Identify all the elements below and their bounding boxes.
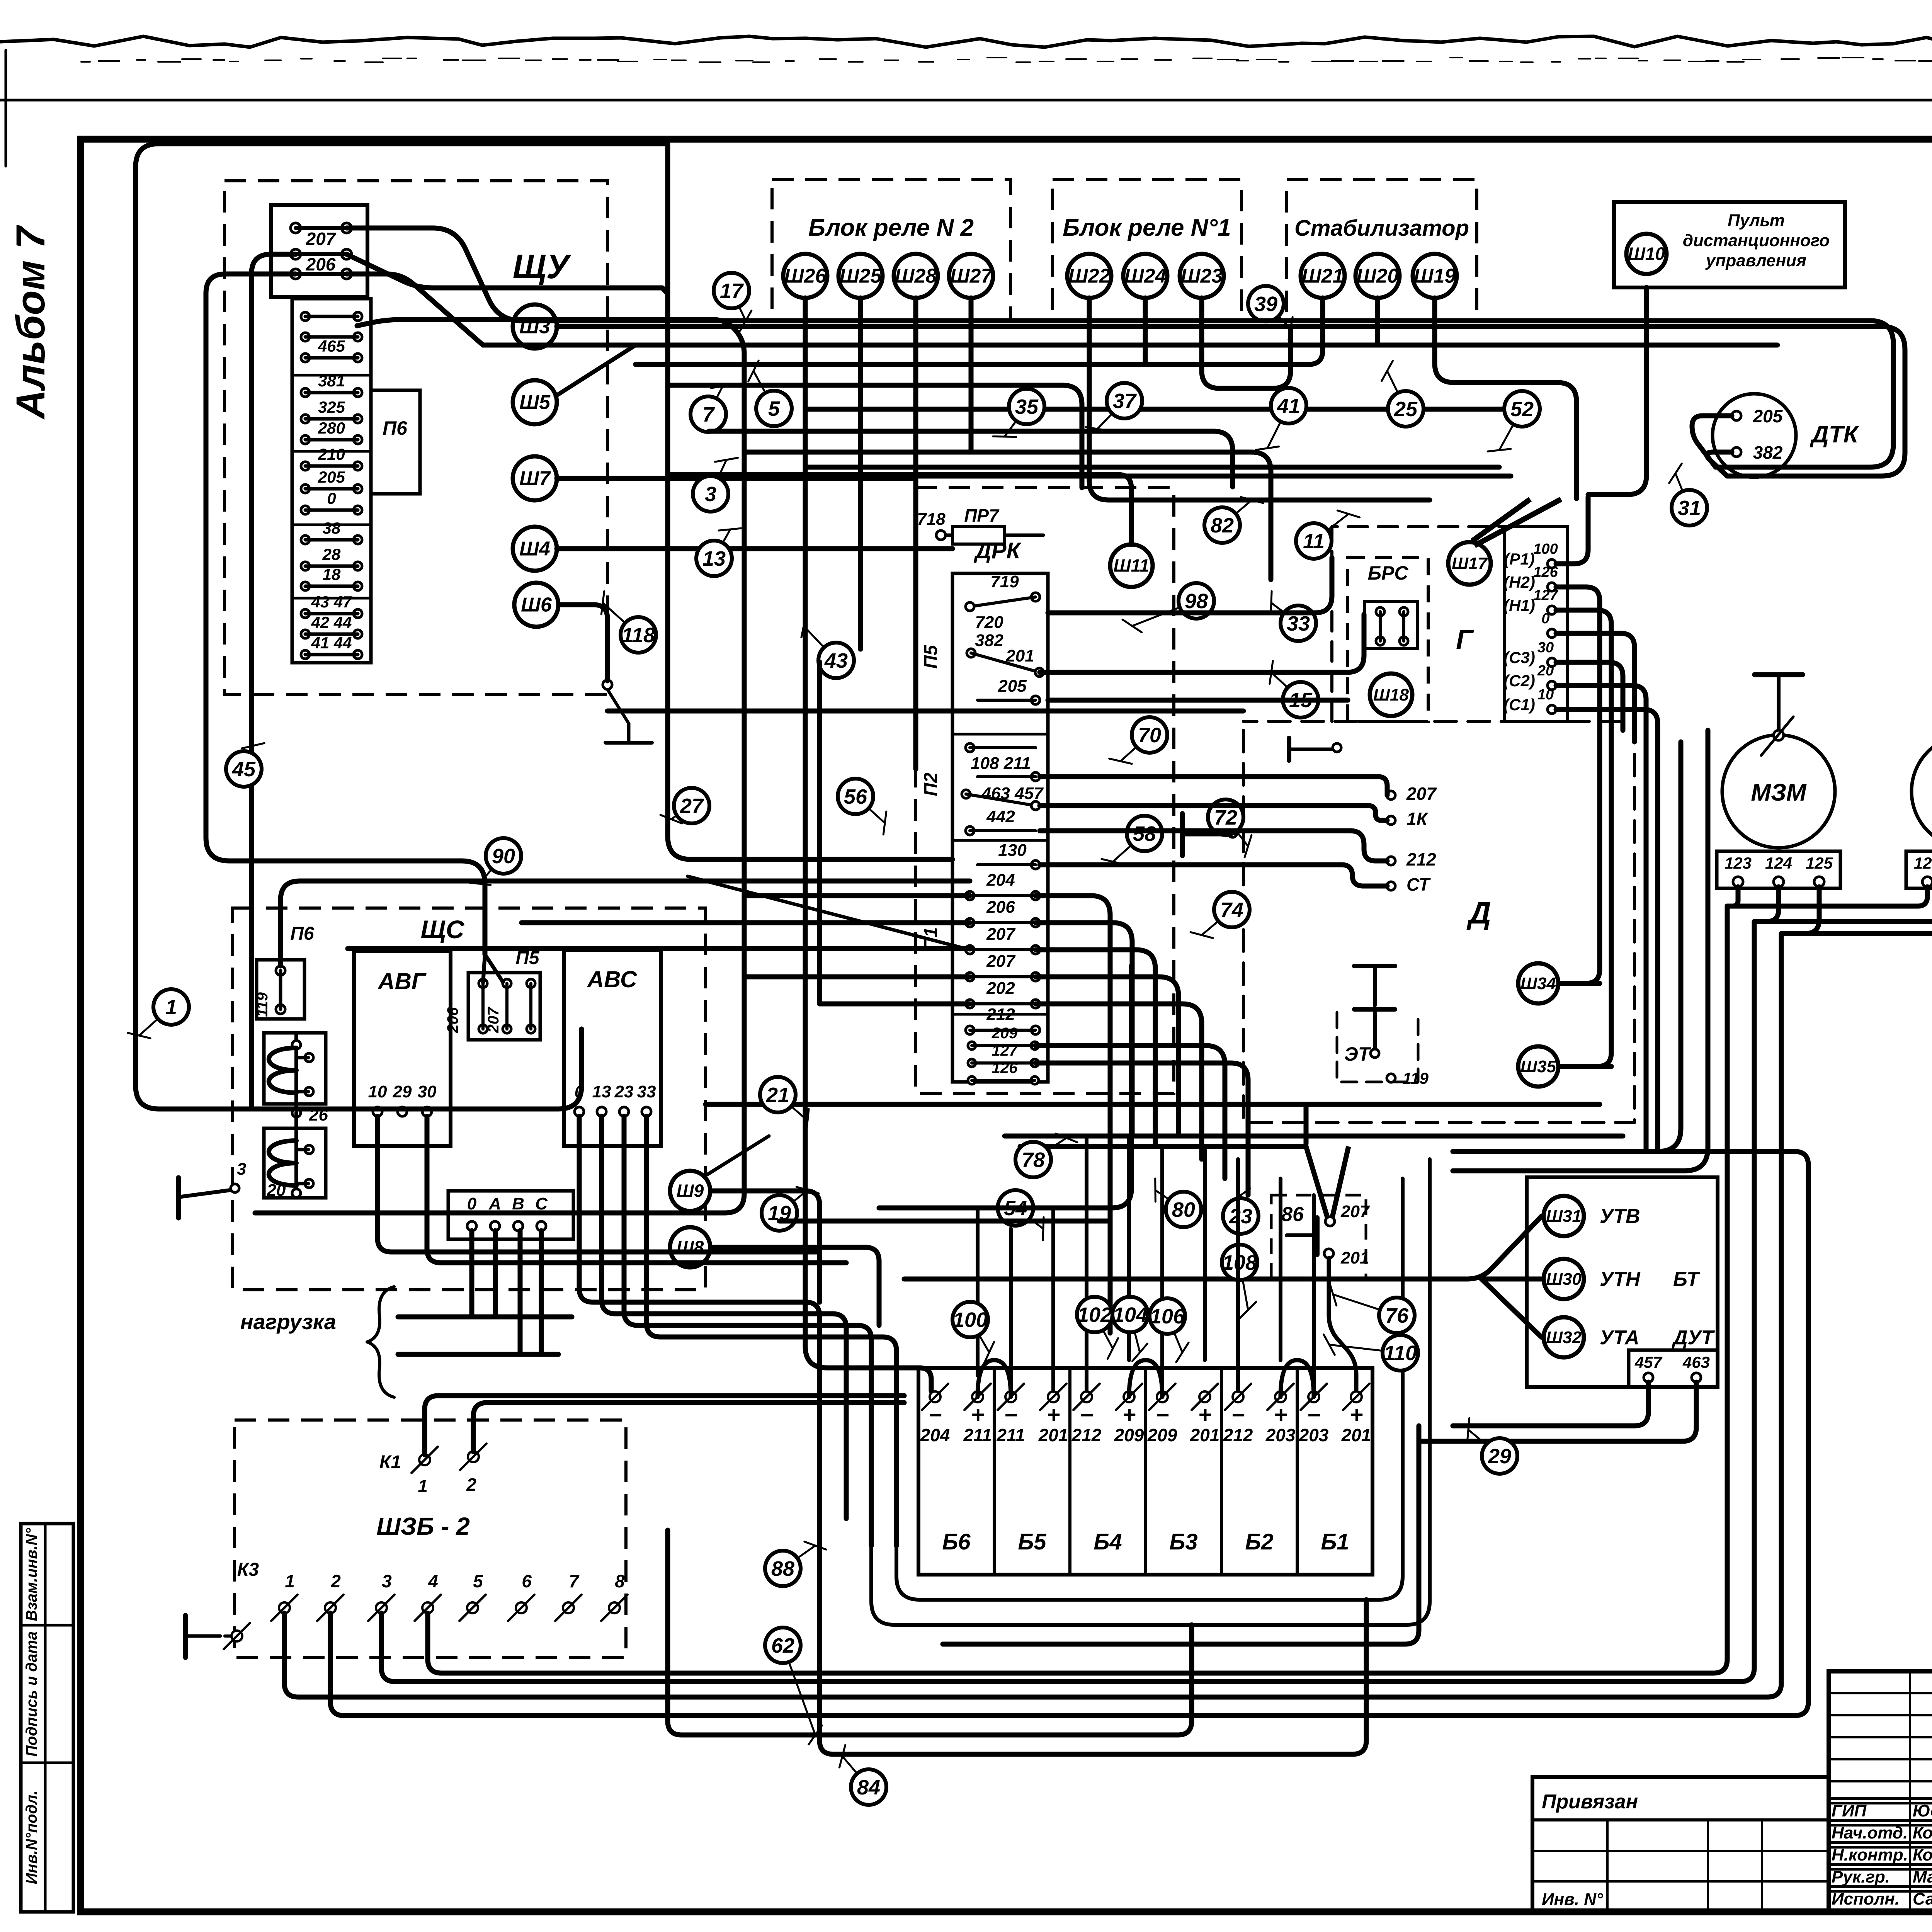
sheet border left edge bbox=[5, 50, 7, 166]
svg-text:82: 82 bbox=[1211, 514, 1234, 537]
wire from ЩУ 207 row left to cable 45 bbox=[252, 254, 296, 699]
svg-text:10: 10 bbox=[1537, 687, 1554, 703]
connector Ш28 bbox=[894, 254, 938, 298]
svg-text:88: 88 bbox=[771, 1557, 794, 1580]
svg-text:76: 76 bbox=[1385, 1304, 1409, 1327]
svg-text:(Н1): (Н1) bbox=[1503, 596, 1535, 614]
cable 52 marker bbox=[1499, 409, 1522, 450]
svg-text:382: 382 bbox=[975, 631, 1003, 650]
svg-text:Ш6: Ш6 bbox=[521, 594, 552, 616]
svg-text:(Н2): (Н2) bbox=[1503, 573, 1535, 591]
svg-text:К3: К3 bbox=[237, 1560, 259, 1580]
current transformer coil box 1 bbox=[264, 1033, 326, 1104]
cable 82 marker bbox=[1222, 500, 1252, 525]
svg-text:ГИП: ГИП bbox=[1832, 1801, 1867, 1820]
svg-text:465: 465 bbox=[318, 337, 345, 355]
bus from Ш5 diagonal bbox=[556, 345, 636, 396]
svg-text:102: 102 bbox=[1077, 1303, 1112, 1327]
left attached columns strip bbox=[21, 1524, 73, 1912]
svg-text:212: 212 bbox=[986, 1005, 1015, 1024]
svg-text:201: 201 bbox=[1005, 646, 1034, 665]
cable 1 marker bbox=[139, 1007, 171, 1036]
svg-text:207: 207 bbox=[1340, 1202, 1370, 1221]
svg-text:П6: П6 bbox=[383, 417, 408, 439]
fuse ПР7 bbox=[936, 531, 946, 540]
title block main table bbox=[1829, 1671, 1932, 1912]
Привязан box bbox=[1532, 1777, 1829, 1912]
svg-text:52: 52 bbox=[1510, 398, 1534, 421]
bus row 1116 bbox=[709, 431, 1233, 487]
svg-text:8: 8 bbox=[615, 1571, 625, 1591]
cable 80 marker bbox=[1155, 1190, 1184, 1209]
svg-text:Козлов: Козлов bbox=[1913, 1845, 1932, 1864]
cable 25 marker bbox=[1387, 371, 1406, 409]
svg-text:18: 18 bbox=[323, 565, 341, 583]
diesel distribution box ДРК dashed enclosure bbox=[915, 488, 1174, 1094]
svg-text:Нач.отд.: Нач.отд. bbox=[1832, 1823, 1908, 1842]
svg-text:−: − bbox=[1155, 1402, 1169, 1428]
cable 27 marker bbox=[671, 806, 692, 819]
battery terminal −211 bbox=[1005, 1391, 1016, 1402]
svg-text:Стабилизатор: Стабилизатор bbox=[1294, 216, 1469, 241]
cable 5 marker bbox=[753, 371, 774, 408]
svg-text:442: 442 bbox=[986, 807, 1015, 826]
svg-text:27: 27 bbox=[680, 794, 704, 818]
svg-text:Самохина: Самохина bbox=[1913, 1889, 1932, 1908]
svg-text:2: 2 bbox=[330, 1571, 341, 1591]
cable 37 marker bbox=[1097, 401, 1124, 429]
cable 90 marker bbox=[479, 856, 503, 884]
connector Ш18 bbox=[1370, 673, 1412, 716]
svg-text:ШЗБ - 2: ШЗБ - 2 bbox=[376, 1512, 470, 1540]
svg-text:6: 6 bbox=[522, 1571, 532, 1591]
wires from К3 down and right bbox=[428, 906, 1727, 1673]
wires from ДУТ terminals down to cable 29 bbox=[1453, 1382, 1648, 1426]
ground at ЩС left bbox=[176, 1178, 181, 1218]
svg-text:Ш32: Ш32 bbox=[1546, 1328, 1582, 1347]
svg-text:90: 90 bbox=[492, 845, 515, 868]
svg-text:ДУТ: ДУТ bbox=[1672, 1327, 1715, 1349]
wires from ДРК П1 right side down bbox=[1036, 896, 1110, 1333]
title row ГИП Юдин bbox=[1829, 1797, 1932, 1800]
connector Ш11 bbox=[1110, 544, 1153, 587]
wires from stabilizer connectors bbox=[636, 298, 1323, 364]
svg-text:БРС: БРС bbox=[1368, 562, 1409, 584]
cable 108 marker bbox=[1240, 1262, 1248, 1310]
wire 19-2 run bbox=[779, 1219, 1110, 1224]
wires into П5 from above bbox=[206, 699, 485, 954]
wire 84 long bottom run bbox=[820, 1504, 1366, 1754]
svg-text:210: 210 bbox=[318, 445, 345, 463]
wires into batteries from above bbox=[976, 1208, 980, 1376]
svg-text:201: 201 bbox=[1038, 1425, 1068, 1445]
svg-text:38: 38 bbox=[323, 519, 341, 537]
svg-text:Ш19: Ш19 bbox=[1414, 265, 1456, 287]
svg-text:20: 20 bbox=[267, 1181, 286, 1200]
terminal strip of МЗТ bbox=[1906, 851, 1932, 888]
wire ЩУ third row to bus bbox=[347, 274, 483, 345]
selector box П6 in ЩУ bbox=[371, 390, 420, 494]
svg-text:207: 207 bbox=[306, 229, 337, 249]
battery terminal −212 bbox=[1081, 1391, 1092, 1402]
svg-text:Юдин: Юдин bbox=[1913, 1801, 1932, 1820]
cable 74 marker bbox=[1202, 910, 1232, 935]
connector Ш10 bbox=[1626, 234, 1667, 274]
svg-text:35: 35 bbox=[1015, 395, 1039, 418]
connector Ш5 bbox=[513, 380, 557, 424]
connector Ш22 bbox=[1067, 254, 1111, 298]
svg-text:126: 126 bbox=[1533, 564, 1558, 580]
connector Ш25 bbox=[838, 254, 883, 298]
long bus 21 from ЩС edge to center bbox=[706, 1102, 1600, 1107]
diesel terminal СТ bbox=[1387, 882, 1395, 890]
air temperature sensor ДТК bbox=[1713, 394, 1796, 477]
cable 43 marker bbox=[804, 626, 836, 660]
wire loop around battery bank outer bbox=[896, 1179, 1403, 1600]
svg-text:управления: управления bbox=[1705, 251, 1806, 270]
relay block N2 dashed enclosure bbox=[772, 179, 1010, 321]
svg-text:−: − bbox=[1307, 1402, 1320, 1428]
svg-text:78: 78 bbox=[1022, 1148, 1045, 1172]
svg-text:Инв. N°: Инв. N° bbox=[1542, 1890, 1603, 1909]
connector Ш30 bbox=[1544, 1259, 1584, 1299]
svg-text:+: + bbox=[1349, 1402, 1363, 1428]
svg-text:58: 58 bbox=[1133, 822, 1156, 845]
svg-text:7: 7 bbox=[702, 403, 715, 426]
wire Ш34 leads bbox=[1560, 981, 1600, 986]
svg-text:463 457: 463 457 bbox=[981, 784, 1044, 803]
diesel terminal 212 bbox=[1387, 857, 1395, 865]
bus 35 37 41 row bbox=[808, 407, 1503, 412]
svg-text:Ш24: Ш24 bbox=[1124, 265, 1167, 287]
svg-text:30: 30 bbox=[1537, 639, 1554, 656]
power board ЩС dashed enclosure bbox=[233, 908, 706, 1290]
svg-text:УТВ: УТВ bbox=[1600, 1205, 1640, 1228]
svg-text:209: 209 bbox=[992, 1025, 1018, 1042]
svg-text:АВС: АВС bbox=[587, 966, 638, 992]
vertical trunk x1728 bbox=[668, 144, 952, 859]
svg-text:1К: 1К bbox=[1406, 809, 1429, 829]
relay block N1 dashed enclosure bbox=[1053, 179, 1242, 321]
wire into 86 terminal 207 bbox=[1306, 1146, 1349, 1217]
cable 11 marker bbox=[1314, 514, 1349, 541]
disconnect switch and ground at ЩУ output bbox=[603, 680, 612, 689]
svg-text:Н.контр.: Н.контр. bbox=[1832, 1845, 1908, 1864]
ground at ШЗБ-2 bbox=[183, 1615, 188, 1658]
svg-text:АВГ: АВГ bbox=[377, 968, 427, 994]
svg-text:3: 3 bbox=[237, 1160, 246, 1179]
ground at generator neutral bbox=[1287, 738, 1291, 760]
svg-text:204: 204 bbox=[920, 1425, 950, 1445]
svg-text:205: 205 bbox=[318, 468, 345, 486]
wire from Ш6 to ЩУ switch bbox=[558, 605, 607, 681]
ground above motor МЗМ bbox=[1755, 672, 1803, 677]
svg-text:+: + bbox=[1274, 1402, 1287, 1428]
battery switch ВБ dashed box 86 bbox=[1271, 1195, 1366, 1278]
svg-text:Ш7: Ш7 bbox=[519, 468, 551, 490]
svg-text:37: 37 bbox=[1113, 389, 1137, 413]
generator dashed enclosure Г bbox=[1332, 527, 1538, 721]
cable 45 marker bbox=[244, 746, 253, 769]
svg-text:ЩУ: ЩУ bbox=[513, 247, 572, 286]
svg-text:119: 119 bbox=[1403, 1069, 1429, 1087]
svg-text:Ш11: Ш11 bbox=[1114, 556, 1150, 576]
svg-text:119: 119 bbox=[254, 992, 271, 1017]
svg-text:0: 0 bbox=[1541, 611, 1549, 627]
load wires pair to brace bbox=[398, 1315, 572, 1320]
svg-text:203: 203 bbox=[1265, 1425, 1296, 1445]
cable 54 marker bbox=[1015, 1208, 1043, 1229]
arrow wires into Ш17 bbox=[1472, 499, 1561, 546]
svg-text:Б5: Б5 bbox=[1018, 1529, 1046, 1554]
connector Ш20 bbox=[1355, 254, 1400, 298]
circuit breaker АВГ bbox=[354, 951, 451, 1146]
connector Ш26 bbox=[783, 254, 827, 298]
load terminal strip О А В С bbox=[448, 1191, 573, 1239]
fuse box П6 in ЩС bbox=[257, 960, 304, 1019]
svg-text:718: 718 bbox=[917, 510, 946, 529]
svg-text:0: 0 bbox=[327, 489, 336, 507]
cable 41 marker bbox=[1267, 406, 1289, 448]
svg-text:Б4: Б4 bbox=[1094, 1529, 1122, 1554]
svg-text:30: 30 bbox=[418, 1082, 437, 1101]
mid buses from ДРК to generator area bbox=[1048, 558, 1332, 613]
svg-text:4: 4 bbox=[428, 1571, 438, 1591]
cable 33 marker bbox=[1271, 603, 1298, 623]
battery terminal +203 bbox=[1275, 1391, 1286, 1402]
connector Ш27 bbox=[949, 254, 993, 298]
bus from Ш7 bbox=[557, 476, 915, 481]
svg-text:205: 205 bbox=[1753, 406, 1783, 426]
svg-text:Рук.гр.: Рук.гр. bbox=[1832, 1867, 1890, 1886]
svg-text:23: 23 bbox=[1229, 1205, 1252, 1228]
wire from ЩУ 206 row left down to П5 bbox=[206, 274, 296, 699]
connector Ш17 bbox=[1448, 542, 1491, 585]
wires from Ш22 Ш24 Ш23 down bbox=[1089, 298, 1430, 500]
svg-text:+: + bbox=[1046, 1402, 1060, 1428]
wires fanning into fuel tank connectors bbox=[904, 1216, 1542, 1279]
svg-text:202: 202 bbox=[986, 979, 1015, 998]
cable 31 marker bbox=[1675, 473, 1689, 508]
svg-text:206: 206 bbox=[306, 254, 336, 274]
svg-text:212: 212 bbox=[1223, 1425, 1253, 1445]
svg-text:1: 1 bbox=[165, 996, 177, 1019]
svg-text:207: 207 bbox=[986, 952, 1016, 971]
wires from МЗТ terminals bbox=[1727, 887, 1927, 906]
svg-text:720: 720 bbox=[975, 613, 1003, 632]
diesel terminal 1К bbox=[1387, 816, 1395, 825]
cable 7 marker bbox=[708, 386, 723, 414]
svg-text:Козлов: Козлов bbox=[1913, 1823, 1932, 1842]
svg-text:41 44: 41 44 bbox=[311, 634, 352, 652]
wires from МЗМ terminals bbox=[1727, 887, 1738, 906]
motor МЗМ bbox=[1722, 735, 1835, 848]
wires from Ш26-Ш27 down bbox=[805, 298, 931, 1391]
svg-text:212: 212 bbox=[1406, 849, 1436, 869]
terminal box 207/206 in ЩУ bbox=[271, 205, 367, 297]
cable 90 wire bbox=[281, 881, 970, 966]
svg-text:дистанционного: дистанционного bbox=[1683, 231, 1830, 250]
svg-text:100: 100 bbox=[953, 1308, 988, 1332]
battery terminal +201 bbox=[1048, 1391, 1059, 1402]
svg-text:203: 203 bbox=[1299, 1425, 1329, 1445]
svg-text:5: 5 bbox=[768, 397, 780, 420]
cable 88 marker bbox=[783, 1546, 815, 1568]
svg-text:23: 23 bbox=[614, 1082, 634, 1101]
connector Ш31 bbox=[1544, 1196, 1584, 1236]
selector П5 in ЩС bbox=[468, 973, 540, 1040]
svg-text:−: − bbox=[1080, 1402, 1093, 1428]
connector Ш21 bbox=[1301, 254, 1345, 298]
battery charging cabinet ШЗБ-2 dashed enclosure bbox=[235, 1420, 626, 1658]
svg-text:29: 29 bbox=[393, 1082, 412, 1101]
svg-text:209: 209 bbox=[1147, 1425, 1177, 1445]
bus from Ш4 bbox=[557, 546, 952, 551]
svg-text:43: 43 bbox=[824, 649, 848, 672]
battery terminal +211 bbox=[972, 1391, 983, 1402]
cable 17 marker bbox=[731, 291, 746, 321]
svg-text:3: 3 bbox=[382, 1571, 392, 1591]
svg-text:86: 86 bbox=[1281, 1203, 1304, 1226]
connector Ш4 bbox=[513, 527, 557, 571]
svg-text:−: − bbox=[1004, 1402, 1017, 1428]
wire from Ш9 right bbox=[712, 1191, 820, 1302]
wire from Ш10 down-left bus bbox=[1588, 287, 1646, 495]
battery terminal +201 bbox=[1199, 1391, 1210, 1402]
wires from АВС down and right bbox=[579, 1116, 820, 1504]
svg-text:207: 207 bbox=[986, 925, 1016, 944]
svg-text:ДТК: ДТК bbox=[1810, 421, 1860, 448]
connector Ш6 bbox=[514, 583, 558, 627]
cable 39 marker bbox=[1266, 304, 1291, 328]
svg-text:Ш28: Ш28 bbox=[895, 265, 937, 287]
wire from ЩУ 207 row right to top bus bbox=[347, 228, 1893, 467]
svg-text:325: 325 bbox=[318, 398, 345, 416]
svg-text:Ш10: Ш10 bbox=[1628, 244, 1665, 264]
svg-text:123: 123 bbox=[1725, 854, 1752, 872]
svg-text:Альбом 7: Альбом 7 bbox=[8, 224, 53, 420]
battery cable markers bbox=[970, 1320, 989, 1352]
cable 35 marker bbox=[1005, 406, 1027, 437]
title row Исполн. Самохина bbox=[1829, 1885, 1932, 1888]
label 20 bbox=[292, 1189, 301, 1197]
svg-text:201: 201 bbox=[1341, 1425, 1371, 1445]
wires from К1 up and right bbox=[425, 1396, 904, 1455]
svg-text:ЩС: ЩС bbox=[421, 915, 465, 944]
svg-text:118: 118 bbox=[622, 624, 655, 647]
cable 84 marker bbox=[842, 1756, 869, 1787]
cable 29 wire long bbox=[943, 1426, 1419, 1644]
cable 45 vertical bbox=[249, 699, 254, 1106]
cable 21 marker bbox=[778, 1095, 808, 1121]
svg-text:Ш27: Ш27 bbox=[950, 265, 993, 287]
svg-text:Ш25: Ш25 bbox=[840, 265, 882, 287]
tubular heater ЭТ dashed box bbox=[1337, 1012, 1418, 1082]
svg-text:127: 127 bbox=[992, 1042, 1018, 1059]
svg-text:П5: П5 bbox=[921, 645, 941, 669]
svg-text:31: 31 bbox=[1678, 497, 1701, 520]
control panel ЩУ dashed enclosure bbox=[224, 181, 607, 694]
battery terminal −204 bbox=[930, 1391, 940, 1402]
circuit breaker АВС bbox=[564, 950, 661, 1146]
cable 70 marker bbox=[1121, 735, 1150, 761]
svg-text:5: 5 bbox=[473, 1571, 483, 1591]
svg-text:Ш4: Ш4 bbox=[519, 538, 550, 560]
wire from Ш8 right bbox=[712, 1247, 879, 1325]
terminal strip in ЩУ bbox=[292, 299, 371, 663]
svg-text:СТ: СТ bbox=[1406, 874, 1431, 895]
motor МЗТ bbox=[1912, 735, 1932, 848]
cable 29 marker bbox=[1468, 1430, 1500, 1456]
svg-text:БТ: БТ bbox=[1673, 1268, 1701, 1291]
svg-text:Блок реле N°1: Блок реле N°1 bbox=[1063, 214, 1231, 241]
svg-text:20: 20 bbox=[1537, 663, 1554, 679]
svg-text:3: 3 bbox=[705, 483, 716, 506]
ground inside diesel area bbox=[1180, 813, 1185, 856]
svg-text:204: 204 bbox=[986, 871, 1015, 889]
svg-text:7: 7 bbox=[569, 1571, 580, 1591]
svg-text:207: 207 bbox=[1406, 784, 1437, 804]
svg-text:126: 126 bbox=[992, 1060, 1018, 1077]
svg-text:45: 45 bbox=[232, 758, 256, 781]
cable 5 bus bbox=[668, 385, 1082, 488]
svg-text:130: 130 bbox=[998, 841, 1027, 860]
svg-text:25: 25 bbox=[1394, 398, 1418, 421]
fuel level sensor terminal box ДУТ bbox=[1629, 1350, 1718, 1387]
cable 56 marker bbox=[855, 796, 885, 823]
battery terminal −209 bbox=[1157, 1391, 1168, 1402]
svg-text:(Р1): (Р1) bbox=[1504, 550, 1534, 568]
svg-text:212: 212 bbox=[1071, 1425, 1102, 1445]
generator terminal strip bbox=[1504, 527, 1505, 721]
svg-text:33: 33 bbox=[1287, 612, 1310, 635]
svg-text:(С3): (С3) bbox=[1503, 648, 1535, 667]
svg-text:42 44: 42 44 bbox=[311, 613, 352, 631]
wire to ДТК 205 bbox=[808, 465, 1499, 470]
wire Ш11 stem bbox=[668, 474, 1131, 544]
bus row 1170 bbox=[746, 452, 1271, 580]
connector Ш23 bbox=[1180, 254, 1224, 298]
wires from load strip ОАВС down bbox=[469, 1231, 474, 1317]
title row Рук.гр. Мамренко bbox=[1829, 1863, 1932, 1866]
svg-text:382: 382 bbox=[1753, 442, 1783, 463]
cable 1 trunk around left side bbox=[136, 144, 668, 1109]
torn top edge of scanned sheet bbox=[0, 36, 1932, 47]
wires from АВГ down bbox=[378, 1116, 820, 1252]
svg-text:100: 100 bbox=[1533, 541, 1558, 557]
svg-text:Подпись и дата: Подпись и дата bbox=[23, 1631, 40, 1757]
svg-text:Ш18: Ш18 bbox=[1373, 685, 1409, 704]
svg-text:209: 209 bbox=[1114, 1425, 1144, 1445]
svg-text:205: 205 bbox=[998, 677, 1027, 696]
connector Ш7 bbox=[513, 456, 557, 500]
svg-text:11: 11 bbox=[1303, 530, 1325, 553]
svg-text:62: 62 bbox=[771, 1634, 794, 1657]
speed control block БРС dashed box bbox=[1348, 558, 1428, 721]
svg-text:211: 211 bbox=[996, 1425, 1025, 1445]
svg-text:МЗМ: МЗМ bbox=[1751, 779, 1806, 806]
svg-text:П2: П2 bbox=[921, 772, 941, 796]
svg-text:Ш26: Ш26 bbox=[784, 265, 827, 287]
cable 19 marker bbox=[779, 1190, 808, 1213]
svg-text:98: 98 bbox=[1185, 590, 1208, 613]
svg-text:72: 72 bbox=[1214, 806, 1237, 829]
cable 13 marker bbox=[714, 529, 730, 558]
svg-text:Ш22: Ш22 bbox=[1068, 265, 1111, 287]
cable 78 marker bbox=[1033, 1138, 1066, 1160]
БРС inner box with contacts bbox=[1364, 602, 1417, 649]
remote control console box bbox=[1614, 202, 1845, 287]
